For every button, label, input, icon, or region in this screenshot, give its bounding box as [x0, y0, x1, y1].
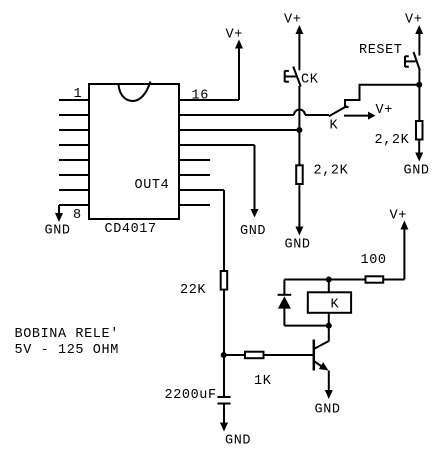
svg-text:5V - 125 OHM: 5V - 125 OHM — [15, 343, 119, 358]
svg-text:CK: CK — [301, 73, 319, 88]
svg-text:V+: V+ — [376, 103, 393, 118]
svg-text:8: 8 — [73, 208, 82, 223]
svg-text:22K: 22K — [180, 283, 206, 298]
svg-text:GND: GND — [45, 224, 71, 239]
svg-text:GND: GND — [225, 434, 251, 449]
svg-text:RESET: RESET — [359, 43, 403, 58]
svg-text:CD4017: CD4017 — [105, 222, 157, 237]
svg-text:V+: V+ — [405, 13, 422, 28]
svg-text:V+: V+ — [284, 13, 301, 28]
svg-text:GND: GND — [315, 403, 341, 418]
svg-text:GND: GND — [285, 238, 311, 253]
svg-text:V+: V+ — [226, 28, 243, 43]
svg-text:2,2K: 2,2K — [375, 133, 410, 148]
svg-text:2,2K: 2,2K — [314, 164, 349, 179]
svg-text:V+: V+ — [390, 209, 407, 224]
svg-text:1K: 1K — [254, 374, 272, 389]
svg-text:2200uF: 2200uF — [165, 388, 217, 403]
svg-text:GND: GND — [240, 224, 266, 239]
svg-text:16: 16 — [192, 89, 209, 104]
svg-text:K: K — [330, 119, 339, 134]
svg-text:1: 1 — [74, 87, 83, 102]
svg-text:K: K — [331, 298, 340, 313]
svg-text:100: 100 — [361, 253, 387, 268]
svg-text:BOBINA RELE': BOBINA RELE' — [15, 327, 119, 342]
svg-text:GND: GND — [404, 164, 430, 179]
svg-text:OUT4: OUT4 — [135, 178, 170, 193]
